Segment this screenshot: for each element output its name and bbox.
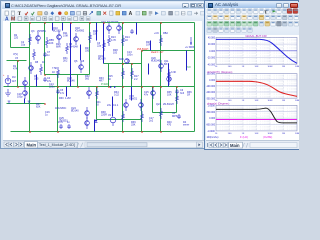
svg-text:20.000: 20.000	[208, 44, 216, 46]
wire lead f	[148, 64, 150, 75]
wire v x103	[103, 23, 105, 64]
transistor Q13	[151, 87, 156, 99]
label R19	[171, 71, 176, 74]
label C13	[127, 51, 133, 57]
resistor R18	[176, 93, 179, 104]
label R34	[114, 91, 119, 97]
wire v x17	[17, 61, 19, 87]
wire v x57	[57, 75, 59, 132]
junction J13	[122, 86, 124, 88]
svg-text:-800.000: -800.000	[206, 125, 216, 127]
junction J18	[29, 131, 31, 133]
label U5	[185, 46, 195, 49]
svg-text:0.000: 0.000	[209, 80, 216, 82]
resistor R9	[57, 67, 60, 78]
svg-text:1K: 1K	[42, 61, 45, 64]
svg-text:BC546: BC546	[67, 80, 75, 83]
svg-text:Q6: Q6	[74, 60, 78, 63]
svg-text:1N4148: 1N4148	[69, 46, 78, 49]
label red idealC	[151, 52, 164, 54]
junction J4	[89, 22, 91, 24]
junction J19	[57, 131, 59, 133]
wire lead h	[66, 87, 68, 97]
junction J20	[122, 131, 124, 133]
transistor Q10	[57, 31, 62, 43]
svg-text:Q21: Q21	[156, 103, 161, 106]
transistor Q14	[124, 99, 129, 111]
label R11	[63, 32, 68, 38]
transistor Q6	[79, 61, 84, 73]
wire lead d	[96, 23, 98, 41]
resistor R25	[103, 40, 106, 51]
capacitor C11	[67, 124, 71, 129]
label Q3	[31, 30, 46, 33]
main schematic editor window	[0, 0, 206, 149]
svg-text:18C/180C: 18C/180C	[55, 107, 66, 110]
junction J10	[77, 86, 79, 88]
svg-text:V2: V2	[108, 114, 112, 117]
transistor Q8	[85, 107, 90, 119]
svg-text:2.2: 2.2	[134, 78, 138, 81]
transistor Q9	[85, 117, 90, 129]
transistor Q26	[167, 73, 172, 85]
svg-text:KSA992: KSA992	[75, 30, 85, 33]
svg-text:Test_1_Module_[2.6D]: Test_1_Module_[2.6D]	[39, 143, 75, 147]
label red 2N5	[137, 49, 149, 51]
label upper pair	[101, 20, 119, 23]
wire v x96	[96, 87, 98, 120]
plot3 black curve	[216, 108, 297, 123]
resistor R8	[40, 64, 43, 75]
wire v x160	[160, 23, 162, 132]
resistor R14	[122, 35, 125, 46]
svg-text:150: 150	[93, 33, 98, 36]
label C5	[60, 89, 65, 95]
junction J17	[176, 86, 178, 88]
svg-text:22p: 22p	[97, 45, 102, 48]
resistor RB2	[160, 35, 163, 46]
label R15	[108, 75, 113, 81]
plot2 x labels	[215, 100, 300, 102]
svg-text:MPS: MPS	[172, 115, 178, 118]
svg-text:1n: 1n	[47, 54, 50, 57]
svg-text:33K: 33K	[131, 124, 136, 127]
svg-text:68R: 68R	[56, 46, 61, 49]
svg-text:0.22: 0.22	[114, 94, 119, 97]
label C17	[149, 117, 154, 123]
wire rail y119	[97, 119, 142, 121]
wire lead l	[186, 51, 188, 71]
transistor Q7	[87, 87, 92, 99]
junction J8	[17, 86, 19, 88]
junction J22	[160, 131, 162, 133]
svg-text:C1.1: C1.1	[113, 104, 119, 107]
svg-text:100: 100	[228, 66, 232, 68]
svg-text:B2B: B2B	[119, 58, 124, 61]
junction J12	[108, 86, 110, 88]
wire lead g	[36, 75, 38, 87]
resistor R21	[122, 111, 125, 122]
transistor Q15	[139, 99, 144, 111]
label R27	[85, 47, 90, 53]
svg-text:V3: V3	[15, 57, 19, 60]
plot2 y labels	[206, 74, 216, 101]
svg-text:10K: 10K	[49, 42, 54, 45]
label C10	[58, 121, 70, 124]
label R37	[36, 103, 41, 109]
plot1 x labels	[215, 66, 300, 68]
plot3 label	[207, 101, 229, 105]
svg-text:220: 220	[14, 37, 19, 40]
transistor Q3	[36, 32, 41, 44]
svg-text:0.000: 0.000	[209, 51, 216, 53]
label R38	[101, 111, 107, 117]
svg-text:2N5401x2: 2N5401x2	[107, 21, 119, 23]
svg-text:0.000: 0.000	[209, 118, 216, 120]
plot2 grid	[216, 74, 297, 99]
resistor R10	[96, 88, 99, 99]
label R3	[34, 75, 39, 81]
svg-text:1M: 1M	[282, 66, 285, 68]
label Q22	[67, 77, 75, 83]
source V1	[5, 75, 11, 87]
source arrow U5	[190, 37, 192, 45]
resistor R23	[160, 108, 163, 119]
svg-text:24v: 24v	[107, 104, 112, 107]
label P4W2	[101, 84, 109, 86]
label 24v	[107, 104, 119, 107]
wire rail y74	[45, 74, 90, 76]
wire v x77	[77, 75, 79, 87]
svg-text:560: 560	[85, 78, 90, 81]
svg-text:10K: 10K	[255, 100, 259, 102]
wire stub y60 left	[7, 60, 27, 62]
svg-text:R30: R30	[59, 97, 64, 100]
plot1 gain grid	[216, 37, 297, 64]
resistor R22	[141, 111, 144, 122]
label R40	[167, 121, 172, 127]
svg-text:10M: 10M	[295, 66, 299, 68]
AC analysis window	[204, 0, 299, 150]
plot1 y labels	[207, 38, 216, 67]
svg-text:Q3: Q3	[31, 30, 35, 33]
label R14	[125, 36, 130, 42]
svg-text:(OvrBk): (OvrBk)	[263, 135, 272, 139]
wire lead k	[94, 120, 96, 132]
svg-text:2n2: 2n2	[149, 120, 154, 123]
plot1 title	[245, 34, 266, 38]
transistor Q16	[107, 23, 112, 34]
wire lead m	[24, 99, 26, 104]
label R12	[93, 30, 98, 36]
junction J11	[96, 86, 98, 88]
label D3	[69, 43, 78, 49]
svg-text:220u: 220u	[49, 86, 55, 89]
svg-text:4k7: 4k7	[12, 80, 17, 83]
svg-text:10: 10	[215, 66, 218, 68]
wire lead e	[136, 23, 138, 35]
wire lead a	[52, 23, 54, 31]
svg-text:1K: 1K	[96, 104, 99, 107]
ground flag A	[8, 101, 11, 104]
svg-text:2N5551: 2N5551	[37, 30, 46, 33]
label C2	[21, 41, 26, 47]
wire v x131	[131, 64, 133, 87]
label R31	[63, 57, 68, 63]
plot3 grid	[216, 105, 297, 131]
capacitor C12	[177, 114, 181, 119]
wire lead i	[112, 97, 114, 117]
label out	[186, 67, 191, 69]
svg-text:P=4W2: P=4W2	[101, 84, 109, 86]
junction J23	[122, 63, 124, 65]
svg-text:1M: 1M	[12, 76, 15, 79]
svg-text:GRAAL-BUT.CIR: GRAAL-BUT.CIR	[245, 35, 266, 38]
svg-text:10M: 10M	[295, 100, 299, 102]
svg-text:-200.000: -200.000	[206, 92, 216, 94]
svg-text:R8: R8	[35, 61, 39, 64]
svg-text:100: 100	[113, 52, 118, 55]
svg-text:1K: 1K	[242, 100, 245, 102]
svg-text:Ideal C: 4n7: Ideal C: 4n7	[151, 52, 164, 54]
label B2B	[119, 58, 124, 61]
svg-text:100n: 100n	[127, 54, 133, 57]
transistor Q12	[125, 59, 130, 64]
svg-text:1.2M: 1.2M	[65, 97, 71, 100]
svg-text:10M: 10M	[295, 133, 299, 135]
label Q20	[151, 57, 161, 63]
wire v x194	[194, 23, 196, 132]
wire rail y112 right	[153, 112, 177, 114]
svg-text:40.000: 40.000	[208, 38, 216, 40]
svg-text:1K: 1K	[242, 66, 245, 68]
label Q21	[156, 103, 174, 106]
capacitor C5	[56, 89, 60, 94]
plot2 label	[207, 70, 233, 74]
transistor Q4	[29, 62, 34, 74]
svg-text:1M: 1M	[282, 133, 285, 135]
label R26	[56, 43, 61, 49]
svg-text:50: 50	[108, 78, 111, 81]
resistor R13	[108, 35, 111, 46]
label RB2	[154, 32, 168, 35]
plot1 gain curve	[216, 39, 297, 63]
label C18	[17, 93, 23, 99]
label D4	[183, 121, 189, 127]
wire v x141	[141, 51, 143, 132]
label R28	[113, 49, 118, 55]
wire top-left box bottom	[11, 47, 30, 49]
resistor R19	[168, 69, 171, 80]
svg-text:1M: 1M	[282, 100, 285, 102]
svg-text:C8: C8	[81, 60, 85, 63]
transistor Q18	[74, 33, 79, 45]
svg-text:7.5K: 7.5K	[52, 67, 57, 70]
capacitor C7	[43, 52, 47, 57]
label Q25	[59, 117, 68, 123]
transistor Q11	[159, 60, 164, 72]
wire lead c	[80, 45, 82, 61]
junction J26	[44, 74, 46, 76]
junction J5	[103, 22, 105, 24]
wire v x108	[108, 64, 110, 87]
capacitor C4	[43, 77, 47, 82]
svg-text:2N-B1GH: 2N-B1GH	[163, 103, 174, 106]
svg-text:1K: 1K	[52, 71, 55, 74]
svg-text:-20.000: -20.000	[207, 58, 216, 60]
label 18C	[55, 107, 66, 110]
plot3 x labels	[215, 133, 300, 135]
label U4	[172, 112, 178, 118]
svg-text:3n3: 3n3	[180, 92, 185, 95]
wire rail y63 mid	[104, 63, 142, 65]
svg-text:10p: 10p	[21, 44, 26, 47]
junction J7	[160, 22, 162, 24]
svg-text:1R: 1R	[187, 94, 190, 97]
label V1	[3, 75, 17, 83]
resistor RB5	[46, 37, 49, 48]
junction J16	[160, 86, 162, 88]
svg-text:470: 470	[167, 124, 172, 127]
ground flag B	[28, 101, 31, 104]
svg-text:1.600K: 1.600K	[208, 105, 216, 107]
label R41	[96, 101, 101, 107]
svg-text:2N5-B1GH: 2N5-B1GH	[137, 49, 149, 51]
svg-text:10K: 10K	[255, 133, 259, 135]
wire v x122	[122, 23, 124, 132]
svg-text:10K: 10K	[167, 94, 172, 97]
svg-text:A: A	[129, 11, 133, 17]
wire v x176	[176, 87, 178, 113]
wire bottom rail	[11, 131, 195, 133]
svg-text:100p: 100p	[17, 96, 23, 99]
svg-text:B3.9: B3.9	[164, 63, 170, 66]
label R17	[134, 75, 139, 81]
junction J14	[141, 86, 143, 88]
label Q24	[71, 107, 79, 113]
label Q6	[74, 60, 85, 63]
label Q19	[98, 55, 106, 61]
wire lead b	[62, 23, 64, 31]
label Q10	[53, 27, 61, 33]
resistor R6	[33, 49, 36, 60]
plot2 phase curve	[216, 81, 297, 96]
svg-text:100.000: 100.000	[207, 74, 216, 76]
svg-text:3.3K: 3.3K	[171, 71, 176, 74]
label R35	[167, 91, 172, 97]
capacitor C6	[175, 89, 179, 94]
svg-text:330: 330	[85, 50, 90, 53]
label C14	[49, 83, 55, 89]
svg-text:220R: 220R	[101, 114, 107, 117]
label Q23	[129, 95, 138, 101]
diode D1 inline	[110, 86, 116, 88]
label R39	[131, 121, 136, 127]
svg-text:100(mmho): 100(mmho)	[207, 137, 219, 139]
wire rail y50 right	[142, 50, 195, 52]
svg-text:10R: 10R	[146, 44, 151, 47]
svg-text:T: T	[18, 12, 22, 17]
wire lead n	[150, 41, 152, 51]
junction J1	[29, 22, 31, 24]
svg-text:47n: 47n	[144, 94, 149, 97]
svg-text:MJE340: MJE340	[151, 60, 161, 63]
svg-text:MPA: MPA	[189, 46, 195, 49]
svg-text:-100.000: -100.000	[206, 86, 216, 88]
svg-text:3.9K: 3.9K	[63, 35, 68, 38]
label Q11	[164, 60, 170, 66]
transistor Q5	[23, 87, 28, 99]
svg-text:RB2: RB2	[163, 32, 168, 35]
svg-text:Main: Main	[27, 142, 37, 147]
junction J2	[44, 22, 46, 24]
label R36	[187, 91, 192, 97]
svg-text:2N5551: 2N5551	[59, 120, 68, 123]
label R1	[13, 65, 18, 71]
svg-text:+: +	[3, 75, 5, 77]
wire v x29	[29, 23, 31, 132]
label R32	[85, 75, 90, 81]
label R30	[59, 97, 71, 100]
label C7	[47, 51, 51, 57]
node IN junction	[17, 60, 19, 62]
wire v x152	[152, 87, 154, 113]
junction J21	[141, 131, 143, 133]
resistor R12b	[89, 32, 92, 43]
junction J9	[57, 86, 59, 88]
svg-text:NJW21: NJW21	[129, 98, 138, 101]
label C3	[97, 42, 102, 48]
svg-text:V(V): V(V)	[13, 53, 18, 56]
resistor R15	[122, 68, 125, 79]
svg-text:100K: 100K	[267, 133, 273, 135]
label R33	[99, 77, 104, 83]
svg-text:4.7K: 4.7K	[111, 39, 116, 42]
diode D2	[95, 120, 98, 123]
junction J25	[141, 50, 143, 52]
svg-text:10: 10	[215, 133, 218, 135]
label R13	[111, 36, 116, 42]
wire v x168	[168, 64, 170, 87]
capacitor C9	[130, 29, 134, 34]
svg-text:100K: 100K	[267, 66, 273, 68]
plot1 reference line	[216, 50, 297, 52]
label Q18	[75, 27, 85, 33]
wire rail y103 left	[7, 103, 45, 105]
transistor Q2	[23, 77, 28, 89]
svg-text:F (Hz): F (Hz)	[240, 135, 248, 139]
label C16	[45, 111, 50, 117]
svg-text:100: 100	[228, 133, 232, 135]
label RB5	[49, 39, 54, 45]
svg-text:17n: 17n	[60, 92, 65, 95]
svg-text:+C9: +C9	[154, 32, 159, 35]
resistor R17	[131, 68, 134, 79]
plot3 y labels	[206, 105, 216, 133]
svg-text:47K: 47K	[13, 68, 18, 71]
svg-text:82K: 82K	[36, 106, 41, 109]
capacitor C10	[59, 124, 63, 129]
svg-text:+U: +U	[185, 46, 188, 49]
wire v x70	[70, 23, 72, 87]
junction J3	[70, 22, 72, 24]
label R2	[14, 34, 19, 40]
resistor R11b	[66, 43, 69, 54]
junction J6	[122, 22, 124, 24]
wire top power rail	[11, 22, 195, 24]
wire v x89	[89, 23, 91, 75]
svg-text:BD140: BD140	[71, 110, 79, 113]
